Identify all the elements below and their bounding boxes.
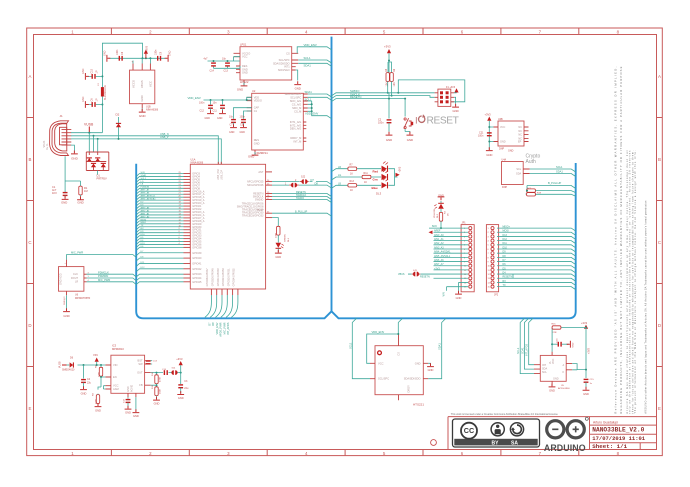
svg-text:SDA1: SDA1 [305, 90, 313, 94]
svg-text:GND: GND [169, 50, 172, 56]
supply +3V3 [144, 45, 149, 58]
svg-text:SDA1: SDA1 [521, 347, 524, 354]
svg-text:GND: GND [295, 87, 301, 91]
wire RESETN [332, 99, 406, 102]
wire D8 jp2 [497, 257, 576, 260]
wire SCL1 to bus [298, 60, 331, 63]
supply +3V3 [384, 45, 391, 74]
wire vin row [78, 364, 106, 366]
MIC CLUSTER [59, 251, 137, 318]
svg-text:SCL: SCL [542, 371, 547, 374]
wire GND jp1 [459, 282, 469, 293]
svg-text:GND: GND [583, 392, 589, 396]
wire AIN3_A3 jp1 [434, 248, 469, 250]
svg-text:CS_M: CS_M [294, 109, 301, 113]
svg-text:APDS-9960: APDS-9960 [558, 387, 570, 390]
wire B_PULLUP to bus [272, 213, 332, 216]
svg-text:OUT: OUT [137, 371, 143, 375]
svg-text:B_PULLUP: B_PULLUP [295, 210, 308, 213]
pin GPIO38 [184, 246, 191, 248]
pressure sensor U7 LPS22 [234, 43, 299, 85]
svg-text:SDA1: SDA1 [556, 170, 563, 174]
node below ferrite [101, 104, 103, 106]
svg-text:EP: EP [518, 141, 522, 144]
crypto chip U4A ATECC608 [502, 158, 530, 189]
wire 3V3 jp1 [434, 269, 469, 271]
svg-text:100n: 100n [199, 102, 205, 105]
svg-text:GND: GND [140, 95, 144, 101]
svg-text:D: D [658, 323, 661, 328]
svg-text:1K: 1K [350, 173, 353, 176]
svg-text:100n: 100n [155, 49, 158, 55]
gnd right of C9 [165, 50, 172, 61]
svg-text:D2: D2 [116, 113, 120, 117]
svg-text:17/07/2019 11:01: 17/07/2019 11:01 [592, 435, 646, 442]
wire MIC_PWR lr [87, 282, 137, 285]
wire VDD_ENV to bus [297, 47, 331, 54]
pin GPIO7 [184, 184, 191, 186]
wire VDD_ENV left [204, 97, 252, 100]
svg-text:INT_M: INT_M [294, 139, 302, 143]
column numbers bottom [71, 451, 619, 456]
svg-text:Sheet: 1/1: Sheet: 1/1 [592, 443, 627, 450]
svg-text:GND: GND [71, 157, 79, 161]
wire SCL1 from bus [352, 318, 370, 378]
svg-text:GND: GND [127, 386, 130, 392]
resistor R11 [338, 172, 371, 184]
pin GPIO45 [184, 281, 191, 283]
capacitor C6 [82, 96, 102, 107]
svg-text:RESETN: RESETN [420, 276, 430, 279]
svg-text:D8: D8 [211, 322, 215, 326]
svg-text:MIC_PWR: MIC_PWR [222, 322, 226, 334]
wire MISO [136, 224, 183, 227]
connector J1 [43, 114, 71, 156]
pin GPIO22 [184, 208, 191, 210]
pin GPIO34 [184, 238, 191, 240]
svg-text:160K: 160K [160, 388, 162, 394]
svg-text:GREEN: GREEN [285, 234, 287, 242]
wire D11 jp2 [497, 245, 576, 248]
svg-text:ARDUINO and other Arduino bran: ARDUINO and other Arduino brands and log… [645, 200, 648, 414]
svg-text:U2: U2 [252, 89, 256, 93]
svg-text:SCL1: SCL1 [304, 56, 311, 60]
svg-text:NC: NC [518, 134, 522, 137]
svg-text:Auth: Auth [526, 159, 537, 165]
svg-text:J1: J1 [60, 114, 64, 118]
wire MOSI jp2 [497, 232, 576, 235]
supply VUSB [84, 123, 94, 133]
svg-text:GND: GND [428, 368, 434, 372]
svg-text:AIN2_A2: AIN2_A2 [141, 209, 151, 212]
svg-text:GPIO30/GPIO48: GPIO30/GPIO48 [212, 268, 215, 287]
svg-text:D11: D11 [503, 242, 508, 245]
svg-text:10n: 10n [222, 58, 227, 61]
capacitor C15 [584, 379, 589, 383]
pin GPIO8 [184, 187, 191, 189]
svg-text:22u: 22u [87, 382, 92, 385]
wire D13 jp2 [497, 236, 576, 239]
svg-text:MISO: MISO [141, 222, 147, 224]
wire D5 [136, 239, 183, 242]
pin GPIO20_A [184, 202, 191, 204]
wire D3 [136, 206, 183, 209]
wire AIN2_A2 jp1 [434, 244, 469, 246]
svg-text:TX: TX [503, 284, 506, 287]
wire vcc [489, 121, 493, 150]
svg-text:GND: GND [63, 314, 69, 318]
resistor R13 [338, 180, 357, 192]
svg-text:200K: 200K [96, 398, 98, 404]
svg-text:NINA-B306: NINA-B306 [191, 162, 204, 165]
pin SWDCLK [266, 196, 272, 198]
svg-text:YELLOW: YELLOW [434, 208, 436, 218]
svg-text:GND: GND [217, 117, 223, 120]
wire AIN2_A2 [136, 212, 183, 215]
svg-text:+3V3: +3V3 [587, 347, 590, 354]
capacitor C3 22u [180, 373, 182, 384]
wire bottom net VDD_ENV [216, 295, 223, 317]
svg-text:SDA/SDI/SDO: SDA/SDI/SDO [273, 61, 290, 65]
svg-text:GND: GND [386, 138, 392, 142]
pin SWDIO [266, 199, 272, 201]
solder jumper SJ4 [171, 370, 177, 375]
svg-text:MPM3610: MPM3610 [112, 347, 124, 351]
svg-text:INT_APDS: INT_APDS [526, 343, 529, 356]
svg-text:MP34DT05TR: MP34DT05TR [75, 297, 91, 300]
svg-text:470K: 470K [160, 376, 162, 382]
LPS22 CLUSTER [204, 43, 332, 92]
module power gate U1B NINA-B306 [130, 58, 159, 111]
svg-text:SCL1: SCL1 [141, 178, 147, 180]
wire SDA1 apds [524, 318, 534, 369]
svg-text:NC: NC [518, 130, 522, 133]
svg-text:GPIO42: GPIO42 [192, 268, 202, 271]
svg-text:22R: 22R [553, 332, 557, 334]
svg-text:LR: LR [75, 281, 78, 284]
svg-text:1M: 1M [84, 189, 88, 193]
svg-text:GPIO34/GPIO52: GPIO34/GPIO52 [233, 268, 236, 287]
svg-text:PDMDIN: PDMDIN [141, 187, 150, 189]
svg-text:RESETN: RESETN [503, 276, 513, 279]
svg-text:PDMDIN: PDMDIN [98, 274, 108, 278]
wire loop to header [398, 80, 465, 102]
pin GPIO21 [184, 205, 191, 207]
wire AREF jp1 [434, 231, 469, 233]
pin GPIO35 [184, 241, 191, 243]
imu U2 LSM9DS1 [247, 89, 308, 155]
svg-text:PRTR5V: PRTR5V [97, 176, 107, 180]
pin ANT [266, 171, 272, 173]
svg-text:RESETN: RESETN [350, 95, 361, 99]
svg-text:ANT: ANT [258, 171, 263, 174]
svg-text:B: B [658, 157, 661, 162]
svg-text:VDD_ENV: VDD_ENV [304, 43, 317, 47]
pin GPIO4 [184, 175, 191, 177]
svg-text:GPIO33/GPIO51: GPIO33/GPIO51 [227, 268, 230, 287]
svg-text:GND: GND [456, 296, 462, 300]
wire SWCLK [332, 96, 435, 99]
resistor R16 [531, 191, 575, 193]
wire LG [136, 182, 183, 185]
svg-text:NANO33BLE_V2.0: NANO33BLE_V2.0 [592, 426, 644, 433]
svg-text:Blue: Blue [372, 186, 379, 190]
svg-text:TRACED3/GPIO33: TRACED3/GPIO33 [242, 215, 264, 218]
svg-text:AREF: AREF [434, 230, 441, 233]
wire AIN3_A3 [136, 209, 183, 212]
svg-text:GND: GND [240, 131, 246, 134]
svg-text:CLK: CLK [73, 273, 78, 276]
svg-text:MOSI: MOSI [141, 219, 147, 221]
capacitor C12 [199, 100, 214, 120]
svg-text:GND: GND [242, 67, 248, 71]
column ticks top [111, 28, 578, 35]
svg-text:GPIO26/GPIO47: GPIO26/GPIO47 [206, 268, 209, 287]
svg-text:+3V3: +3V3 [399, 166, 402, 172]
capacitor C14 [210, 61, 216, 72]
wire SCK jp1 [429, 227, 468, 229]
wire VIN jp1 [447, 286, 469, 288]
svg-text:EN: EN [113, 375, 117, 379]
svg-text:+3V3: +3V3 [384, 45, 391, 49]
svg-text:JP2: JP2 [494, 294, 499, 297]
svg-text:SCL/SPC: SCL/SPC [290, 95, 301, 99]
pin GPIO17_A [184, 193, 191, 195]
wire AIN1_A1 [136, 215, 183, 218]
wire SDA1 to bus [530, 174, 576, 177]
wire INT_APDS [529, 318, 534, 364]
svg-text:MOSI: MOSI [503, 230, 509, 233]
gnd below U1B [139, 109, 147, 118]
RGB LED CLUSTER [272, 162, 402, 196]
svg-text:U4B: U4B [498, 118, 503, 121]
crypto power gate U4B [494, 118, 529, 151]
svg-text:D+ D-: D+ D- [46, 143, 49, 150]
gnd button [407, 132, 414, 142]
svg-text:AIN3_A3: AIN3_A3 [434, 246, 444, 249]
wire D13 [136, 245, 183, 248]
svg-text:C10: C10 [91, 68, 94, 73]
pin GPIO6 [184, 181, 191, 183]
svg-text:VDDIO: VDDIO [254, 99, 262, 103]
wire VUSB from J1 [71, 132, 102, 134]
pin GPIO31 [184, 229, 191, 231]
wire D4 jp2 [497, 274, 576, 277]
supply +3V3 header [454, 88, 459, 93]
module U1A NINA-B306 [190, 159, 265, 289]
column ticks bottom [111, 450, 578, 456]
svg-text:SDA: SDA [516, 173, 521, 176]
svg-text:GPIO31/GPIO49: GPIO31/GPIO49 [217, 268, 220, 287]
pin GPIO28_A [184, 220, 191, 222]
wire USB_N [71, 136, 218, 165]
svg-text:SCL1: SCL1 [517, 347, 520, 354]
capacitor C9 [155, 49, 163, 61]
wire D11 [136, 263, 183, 266]
svg-text:NINA-B306: NINA-B306 [146, 109, 159, 112]
svg-text:GND: GND [553, 378, 559, 381]
svg-text:JP1: JP1 [462, 221, 467, 224]
svg-text:CC: CC [464, 426, 474, 435]
svg-text:CS: CS [286, 51, 290, 55]
svg-text:C1: C1 [254, 109, 258, 113]
svg-text:C11: C11 [213, 110, 218, 113]
wire AIN5_A5/SCL1 [136, 197, 183, 200]
svg-text:LPS1: LPS1 [240, 43, 247, 47]
svg-text:D12: D12 [503, 238, 508, 241]
inner border [34, 35, 657, 450]
svg-text:VIN: VIN [442, 292, 445, 296]
wire RESETN jp1 [434, 277, 469, 279]
svg-text:GND: GND [237, 88, 243, 92]
svg-text:GPIO45: GPIO45 [192, 281, 202, 284]
svg-text:GND: GND [178, 396, 184, 400]
led red [373, 162, 389, 174]
svg-text:SW: SW [138, 362, 143, 366]
row letters left [28, 74, 31, 411]
svg-text:VBUS: VBUS [398, 273, 405, 276]
svg-text:D8: D8 [315, 181, 319, 185]
wire MIC_PWR right of bus [136, 282, 183, 285]
wire top cap row [110, 57, 166, 59]
svg-text:MIC_PWR: MIC_PWR [71, 251, 83, 255]
svg-text:22u: 22u [184, 387, 189, 390]
wire RX jp2 [497, 282, 576, 285]
wire AIN7_A7 [136, 191, 183, 194]
svg-text:VDD_ENV: VDD_ENV [305, 112, 318, 116]
svg-text:ARDUINO: ARDUINO [544, 443, 586, 453]
wire PDMCLK right of bus [136, 274, 183, 277]
svg-text:GND: GND [452, 109, 458, 113]
svg-text:AIN7_A7: AIN7_A7 [141, 189, 151, 192]
svg-text:AIN5_A5/SCL1: AIN5_A5/SCL1 [434, 255, 451, 258]
svg-text:GND: GND [229, 131, 235, 134]
svg-text:10n: 10n [213, 102, 218, 105]
wire apds A K to rail [572, 364, 586, 370]
wire AIN1_A1 jp1 [434, 240, 469, 242]
svg-text:VDD: VDD [254, 95, 260, 99]
svg-text:LB: LB [338, 183, 341, 186]
gnd jp2 mid [512, 274, 514, 278]
wire SDA1 to bus [298, 63, 331, 66]
wire D12 jp2 [497, 241, 576, 244]
svg-text:VUSB: VUSB [84, 123, 94, 127]
wire bottom net D7 [205, 295, 212, 317]
HTS221 CLUSTER [348, 318, 446, 406]
wire MOSI [136, 221, 183, 224]
svg-text:GND: GND [61, 201, 67, 205]
svg-text:AIN2_A2: AIN2_A2 [434, 242, 444, 245]
svg-text:The product information on the: The product information on the Web Site … [634, 150, 637, 413]
svg-text:VDD_ENV: VDD_ENV [188, 96, 201, 100]
wire AIN7_A7 jp1 [434, 265, 469, 267]
svg-text:VUSB: VUSB [59, 361, 62, 368]
svg-text:SDA/SDI/SDO: SDA/SDI/SDO [404, 377, 421, 381]
row letters right [658, 74, 661, 411]
wire D5 jp2 [497, 270, 576, 273]
svg-text:GND: GND [139, 114, 147, 118]
humidity sensor HTS221 [370, 334, 428, 407]
arduino logo [544, 417, 588, 453]
led DL1 GREEN [277, 235, 279, 242]
svg-text:NC: NC [518, 126, 522, 129]
supply +3V3 LED [396, 166, 402, 177]
wire OUT [151, 372, 181, 374]
svg-text:GPIO41: GPIO41 [192, 262, 202, 265]
gnd below LPS22 [237, 80, 248, 92]
wire AIN5_A5/SCL1 jp1 [434, 256, 469, 258]
led green [373, 170, 389, 182]
capacitor C17 gnd pin [127, 397, 129, 399]
svg-text:HTS221: HTS221 [413, 403, 424, 407]
wire B_PULLUP [526, 186, 576, 195]
svg-text:GND: GND [486, 153, 492, 157]
svg-text:FB: FB [139, 383, 143, 387]
svg-text:AAM: AAM [113, 387, 119, 391]
wire MISO+ jp2 [497, 228, 576, 231]
pin GPIO44 [184, 277, 191, 279]
wire AIN0_A0 [136, 218, 183, 221]
svg-text:D13: D13 [503, 234, 508, 237]
svg-text:VCC: VCC [500, 126, 505, 129]
pin GPIO33 [184, 235, 191, 237]
svg-text:SDA1: SDA1 [304, 64, 312, 68]
wire SDA1 [136, 176, 183, 179]
svg-text:100n: 100n [116, 49, 119, 55]
wire D10 jp2 [497, 249, 576, 252]
USB CLUSTER [43, 113, 221, 205]
wire SWDCLK to bus [272, 197, 332, 200]
resistor R9 200K [100, 377, 102, 387]
svg-text:LR: LR [338, 166, 341, 169]
pin mic LR [84, 281, 87, 283]
svg-text:E: E [29, 406, 32, 411]
svg-text:U4A: U4A [502, 158, 507, 161]
wire bottom net ARD_PWR [221, 295, 228, 317]
svg-text:SMEG4020: SMEG4020 [62, 369, 75, 372]
svg-text:GPIO39: GPIO39 [192, 252, 202, 255]
svg-text:REGARDING PRODUCTS, INCLUDING: REGARDING PRODUCTS, INCLUDING BUT NOT LI… [619, 66, 623, 413]
svg-text:DNP: DNP [502, 186, 507, 189]
svg-text:DL3: DL3 [376, 192, 382, 196]
svg-text:B: B [29, 157, 32, 162]
pin NFC2/GPIO26 [266, 184, 272, 186]
svg-text:GND@3: GND@3 [64, 296, 66, 305]
svg-text:GND: GND [254, 141, 260, 145]
pin GPIO27_A [184, 217, 191, 219]
svg-text:GND: GND [549, 389, 555, 393]
wire PDMDIN right of bus [136, 278, 183, 281]
svg-text:+3V3: +3V3 [485, 113, 492, 117]
wire D7 jp2 [497, 262, 576, 265]
pin CLK GPIO [266, 217, 272, 219]
led DL2 YELLOW SCK [434, 194, 450, 230]
svg-text:DNP: DNP [499, 148, 504, 151]
svg-text:Reference Designs ARE PROVIDED: Reference Designs ARE PROVIDED 'AS IS' A… [614, 66, 618, 413]
wire LED green row [332, 177, 382, 180]
capacitor C4 22u [83, 365, 85, 379]
wire CS tie VDD_ENV [308, 101, 332, 119]
svg-text:VIN: VIN [113, 363, 117, 367]
diode D6 [70, 362, 74, 367]
pin GPIO30 [184, 226, 191, 228]
led blue [372, 178, 389, 190]
capacitor C2 100n [378, 93, 392, 142]
wire PDMDIN [87, 278, 137, 281]
wire AIN4_A4/SDA1 jp1 [434, 252, 469, 254]
pin GPIO23_A [184, 211, 191, 213]
svg-text:GND: GND [508, 150, 514, 153]
